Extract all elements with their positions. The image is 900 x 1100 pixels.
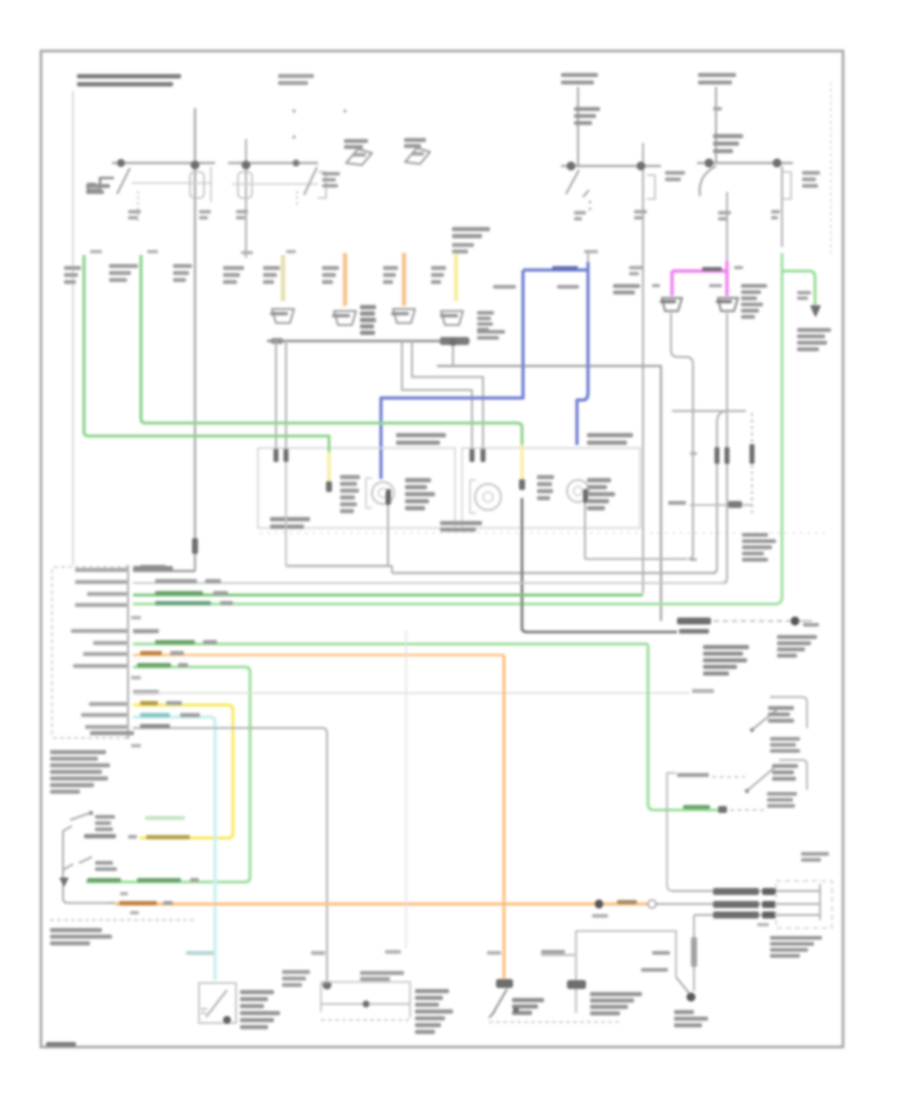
label below switch1 xyxy=(770,737,800,741)
wire: orange bottom feed xyxy=(107,902,116,904)
label block right of pink xyxy=(741,284,767,288)
pin blob right a xyxy=(470,448,475,462)
label in DRL box xyxy=(590,992,642,996)
wire: battery saver link xyxy=(690,504,752,506)
wire: trio top line xyxy=(672,890,820,892)
row label 6 xyxy=(71,629,127,633)
wire: green bottom row text xyxy=(87,878,121,882)
wire: U connector top rail xyxy=(672,410,746,412)
pin blob U a xyxy=(715,447,720,464)
wire label block g4 xyxy=(223,266,244,270)
wire: blue right leg xyxy=(577,262,588,445)
fuse element vertical xyxy=(693,915,695,937)
row label 2 xyxy=(75,580,127,584)
row label 8 xyxy=(83,652,127,656)
wire: high beam rail xyxy=(585,558,687,560)
wire: row9 green branch xyxy=(86,667,250,882)
wire: blue left leg xyxy=(381,270,523,479)
junction blob branch B right xyxy=(773,159,782,168)
wire: row12 yellow branch xyxy=(133,705,233,838)
flasher pin blob xyxy=(223,1016,231,1024)
label right of relay B xyxy=(322,172,340,176)
splice dot S410 xyxy=(791,617,800,626)
wire: U connector outer leg xyxy=(722,406,727,583)
wire: orange long vertical xyxy=(502,655,505,980)
DRL left edge bar xyxy=(567,980,586,989)
label A/C right of branch A xyxy=(665,171,685,175)
row1 text xyxy=(133,566,153,570)
wire: yellow stub right box xyxy=(520,445,523,481)
wire: red link into box xyxy=(541,954,575,956)
label DK GRN on pink xyxy=(702,267,722,271)
connector cup yellow xyxy=(441,311,463,325)
fuse B symbol and label xyxy=(713,134,743,138)
arrow blob end of green stub xyxy=(811,306,820,316)
lamp box right xyxy=(462,448,640,528)
row label 7 xyxy=(93,641,127,645)
label A tick xyxy=(120,892,128,895)
junction blob relay A right (on main vertical) xyxy=(191,161,200,170)
label above M1 a xyxy=(311,951,325,955)
sensor row dashes xyxy=(712,776,745,778)
tick C on cream xyxy=(286,250,296,253)
pin blob U b xyxy=(725,447,730,464)
pin blob yellow right xyxy=(519,479,525,490)
wire: trio bottom line xyxy=(694,914,820,916)
connector cup pink left xyxy=(662,298,682,311)
wire: yellow stub xyxy=(454,254,458,301)
wire: row14 gray branch xyxy=(133,728,327,980)
row7 end dashes xyxy=(730,809,767,811)
label: hot at all times (right) xyxy=(698,73,736,77)
lamp circle right xyxy=(567,480,589,502)
bracket right of branch B xyxy=(782,172,791,199)
wire: pink jumper xyxy=(672,261,727,296)
label ip fuse block xyxy=(770,936,822,940)
label above green arrow xyxy=(797,291,811,294)
switch A contact xyxy=(89,811,93,815)
dotted below switch A xyxy=(589,201,592,204)
pin blob left a xyxy=(274,448,279,462)
dimmer switch blade xyxy=(492,989,507,1015)
faint drop x406 xyxy=(405,630,407,948)
wire: jog drop b xyxy=(412,341,483,457)
connector bracket xyxy=(127,565,129,739)
fuse A symbol and label xyxy=(574,107,600,111)
header row 6 text xyxy=(133,629,155,633)
ground label G301 xyxy=(742,533,768,537)
label exterior lights system xyxy=(797,328,831,332)
label switch A xyxy=(95,815,115,819)
label turn signal switch xyxy=(50,928,102,932)
wire: main left feed vertical xyxy=(194,108,196,571)
dimmer terminal blob xyxy=(496,979,513,988)
row label 1 xyxy=(75,568,127,572)
tick C on green1 xyxy=(90,250,102,253)
junction blob relay B mid xyxy=(293,160,300,167)
trio bar short top xyxy=(762,888,776,895)
junction blob branch B left xyxy=(705,159,714,168)
connector tick on second vertical xyxy=(236,210,248,214)
row stub 10 xyxy=(131,676,141,679)
switch blade branch A xyxy=(566,170,579,194)
row11 end text xyxy=(692,689,714,693)
connector cup pink right xyxy=(718,298,738,311)
label S left of dimmer xyxy=(487,951,501,955)
label flasher assembly xyxy=(240,990,274,994)
label LT BLU end xyxy=(186,951,214,955)
wire: drop pair left b xyxy=(285,341,287,457)
row7 end text xyxy=(683,805,710,809)
fuse B tick xyxy=(713,107,722,111)
tick c2 under trio xyxy=(757,923,769,926)
label pale green row A xyxy=(145,816,185,820)
wire: yellow end row text xyxy=(84,834,116,838)
dashed margin line top right xyxy=(830,82,832,256)
row12 text xyxy=(140,701,158,705)
relay A switch blade xyxy=(117,168,130,194)
wire label block g8 xyxy=(431,266,446,270)
relay A connector housing xyxy=(190,172,204,198)
label blkwht xyxy=(641,968,668,972)
label s410 xyxy=(803,623,819,627)
connector arrow blob 1 xyxy=(346,149,372,165)
flasher body xyxy=(199,983,236,1023)
label switch right 1 xyxy=(768,706,794,710)
bracket right of branch A xyxy=(647,175,655,199)
dashed leg of U connector xyxy=(751,413,753,515)
DRL box xyxy=(576,931,676,1013)
junction blob relay A left xyxy=(117,159,125,167)
pin blob left b xyxy=(284,448,289,462)
connector tick on right drop xyxy=(771,210,780,214)
wire: U connector left leg xyxy=(712,411,728,573)
row13 text xyxy=(140,713,170,717)
label above ip fuse box xyxy=(801,852,829,856)
module M1 dashed bottom xyxy=(321,1019,410,1021)
label left of M1 vertical xyxy=(282,970,310,974)
row label 13 xyxy=(81,713,127,717)
lamp text col 4 xyxy=(587,478,611,482)
junction blob branch A xyxy=(567,162,576,171)
label switch right 2 xyxy=(772,764,798,768)
page number label xyxy=(46,1042,76,1047)
row11 faint wire xyxy=(133,692,690,694)
pin blob yellow left xyxy=(326,481,332,492)
dashed bottom dimmer box xyxy=(489,1021,622,1023)
label end of headlamp feed xyxy=(679,629,709,634)
row stub 5 xyxy=(131,616,141,619)
bus: branch B rail xyxy=(697,162,793,164)
wire label block g7 xyxy=(383,266,398,270)
trio bar short mid xyxy=(762,901,776,908)
module M1 inner link xyxy=(321,1003,410,1005)
row4 text xyxy=(155,601,211,605)
row2 wire gray xyxy=(133,582,727,584)
lamp circle mid xyxy=(475,484,501,510)
tick C on main xyxy=(241,251,253,254)
tick pink left xyxy=(652,284,660,287)
small ticks right box xyxy=(690,452,697,455)
tick pink right xyxy=(709,284,722,287)
dashed drop below relay B xyxy=(296,191,298,205)
wire label block g3 xyxy=(173,264,192,268)
row8 text xyxy=(140,651,162,655)
connector stack label mid xyxy=(360,305,376,309)
tick pink c2 xyxy=(734,266,743,269)
open circle on orange xyxy=(648,900,656,908)
wire: lamp drop 388 xyxy=(387,505,389,567)
switch right 1 blade xyxy=(753,708,779,729)
junction blob branch A right xyxy=(637,162,646,171)
wire: row7 green xyxy=(133,643,648,646)
splice dot on orange xyxy=(595,900,604,909)
wire: fuse B vertical xyxy=(715,87,717,163)
dashed bottom of switch assembly xyxy=(50,919,195,921)
label left front marker xyxy=(587,433,633,437)
wire: row3 green xyxy=(133,594,643,597)
relay B bracket xyxy=(318,172,326,198)
connector end label xyxy=(90,731,134,735)
trio bar mid xyxy=(713,901,759,908)
label block above yellow stub xyxy=(452,227,490,231)
row stub 15 xyxy=(131,744,141,747)
connector cup cream xyxy=(272,309,294,323)
lamp circle left xyxy=(372,482,394,504)
wire: headlamp switch feed vertical xyxy=(642,143,644,593)
label on yellow end row xyxy=(146,835,190,839)
label tan on orange xyxy=(617,900,637,904)
wire: green stub to arrow xyxy=(782,271,815,306)
label right front marker xyxy=(396,433,446,437)
connector arrow blob 2 xyxy=(405,148,430,164)
wire: gray below pink right cup xyxy=(726,313,728,406)
wire: orange stub 2 xyxy=(402,253,406,306)
row7 text xyxy=(155,640,195,644)
wire label block g1 xyxy=(64,266,81,270)
wire: left lamp inner drop xyxy=(285,462,287,566)
wire: gray below pink left cup xyxy=(671,313,693,559)
junction stub from bus xyxy=(452,341,454,366)
lamp text col 2 xyxy=(405,478,431,482)
wire: row8 orange xyxy=(133,654,504,657)
tiny dot top middle xyxy=(343,109,346,112)
label left rear lamps xyxy=(777,635,817,639)
relay B switch blade xyxy=(304,167,317,195)
junction blob relay B left xyxy=(242,161,251,170)
label above M1 b xyxy=(360,971,404,975)
label: hot at all times (mid) xyxy=(561,73,598,77)
wire: cream stub xyxy=(281,255,286,301)
tick after splice xyxy=(800,620,812,622)
bus: relay A top rail xyxy=(112,162,215,164)
trio bar short bottom xyxy=(762,912,776,919)
row3 text xyxy=(155,591,203,595)
connector tick C100 on main vertical xyxy=(199,210,211,214)
splice row bars xyxy=(677,618,711,625)
label b417 xyxy=(592,914,608,918)
label a417 xyxy=(385,950,401,954)
wire: row13 cyan branch xyxy=(133,717,215,980)
label C100 blue xyxy=(629,266,643,269)
arrow end green row xyxy=(60,878,68,886)
wire: title drop line xyxy=(72,91,74,565)
dotted continuation x294 xyxy=(292,109,295,112)
lamp text col 1 xyxy=(340,475,360,479)
relay A box right edge xyxy=(210,167,212,202)
wire: blue loop top xyxy=(523,268,588,271)
tick B below xyxy=(130,911,139,914)
bus: branch A rail xyxy=(561,165,661,167)
label: left underhood fuse block title xyxy=(77,74,181,79)
wire: row1 link xyxy=(133,570,195,572)
wire: low beam rail a xyxy=(286,565,392,567)
DRL switch dot xyxy=(687,993,696,1002)
label DK BLU on blue xyxy=(552,266,578,270)
label right of M1 xyxy=(415,989,449,993)
row label 14 xyxy=(85,725,127,729)
label under mid lamp xyxy=(440,521,482,525)
connector cup orange2 xyxy=(393,309,415,323)
ip fuse box outline xyxy=(776,881,832,928)
tick above blue right leg xyxy=(587,252,589,262)
switch blade A xyxy=(70,813,90,820)
wire: dimmer drop xyxy=(726,192,728,261)
wire: bottom orange run xyxy=(115,902,648,905)
connector tick below branch A xyxy=(574,211,586,215)
row2 text xyxy=(155,579,197,583)
wire: dark run to splice xyxy=(437,366,661,621)
DRL switch diagonal xyxy=(676,977,689,993)
wire: low beam rail step xyxy=(391,566,393,573)
header row 11 text xyxy=(133,690,157,694)
lamp box left xyxy=(258,448,455,528)
splice row dashes xyxy=(714,620,790,622)
curved switch branch B xyxy=(700,166,716,196)
dashed drop x138 xyxy=(137,191,139,222)
pin blob U c xyxy=(750,444,755,464)
bus blob b xyxy=(271,338,283,344)
row label 12 xyxy=(89,702,127,706)
module M1 box xyxy=(321,982,410,1018)
bus blob a xyxy=(440,337,469,345)
wire: pale green long xyxy=(133,253,782,604)
label left of battery saver xyxy=(668,501,686,505)
splice tick S near relay A xyxy=(128,210,141,214)
trio bar bottom xyxy=(713,912,759,919)
wire: trio mid gray xyxy=(656,903,820,905)
relay B connector housing xyxy=(238,172,252,198)
ground label G117 xyxy=(674,1010,694,1014)
wire: yellow stub left box xyxy=(327,452,330,483)
label 18 BLK row1 xyxy=(140,565,158,569)
row label 4 xyxy=(75,603,127,607)
wire: drop pair left a xyxy=(275,341,277,457)
row label 3 xyxy=(87,592,127,596)
wire: low beam rail b xyxy=(392,572,716,574)
wire: orange stub 1 xyxy=(343,253,347,306)
junction blob on bus xyxy=(449,338,457,346)
dashed rail through boxes xyxy=(260,532,830,534)
sensor row text xyxy=(677,773,709,777)
relay A coil symbol xyxy=(88,178,114,190)
trio bar top xyxy=(713,888,759,895)
relay A coil blob xyxy=(86,184,110,188)
pin blob lamp right xyxy=(583,489,588,503)
pin blob lamp left xyxy=(386,489,391,504)
switch right 2 bracket xyxy=(779,760,807,790)
wire: right drop to exterior lamps xyxy=(781,166,783,247)
lamp text col 3 xyxy=(537,475,554,479)
wire label block g6 xyxy=(322,266,339,270)
ip connector bracket xyxy=(819,884,821,920)
row14 text xyxy=(140,724,158,728)
switch right 2 blade xyxy=(748,768,774,790)
wire: jog drop a xyxy=(402,341,472,457)
label composite headlamp module xyxy=(703,645,749,649)
label switch B xyxy=(95,861,113,865)
wire: main vertical lower blob xyxy=(192,538,198,554)
wire: sensor drop to connector xyxy=(667,773,676,891)
switch bracket left xyxy=(63,826,113,903)
label under bus xyxy=(477,330,505,334)
wire: green into left box xyxy=(84,432,329,452)
wire: lamp drop 585 xyxy=(584,503,586,559)
label 18 WH right xyxy=(557,285,579,289)
switch blade B xyxy=(63,857,92,870)
label 18 ORN xyxy=(119,901,157,905)
wire: green stub 2 xyxy=(139,255,142,419)
wire: green into right box xyxy=(141,419,522,445)
dimmer switch arrow xyxy=(489,1011,495,1018)
connector tick on headlamp feed xyxy=(634,210,647,214)
label red18 xyxy=(652,951,670,955)
relay A lower rail xyxy=(132,182,212,184)
wire: second feed vertical xyxy=(245,139,247,258)
wire: green stub left xyxy=(82,255,85,432)
label below switch2 xyxy=(767,792,797,796)
label body dimming paragraph xyxy=(50,750,106,754)
wire: fuse A vertical xyxy=(577,87,579,166)
connector tick below curved switch xyxy=(718,211,731,215)
label: hot at all times (left) xyxy=(278,74,314,78)
switch arrow branch A xyxy=(583,190,589,197)
connector cup orange1 xyxy=(334,311,356,325)
dashed box of switch connector xyxy=(52,567,128,738)
bus: lamp connector rail xyxy=(267,340,470,343)
bus: relay B top rail xyxy=(228,162,318,164)
label block right of blue xyxy=(613,284,640,288)
tick C on green2 xyxy=(147,250,158,253)
label right of branch B xyxy=(802,171,820,175)
label dimmer switch xyxy=(512,998,544,1002)
wire label block g2 xyxy=(109,264,138,268)
label under left lamp xyxy=(270,517,310,521)
row7 end tick xyxy=(718,806,727,813)
relay B lower rail xyxy=(232,183,318,185)
pin blob 388 xyxy=(386,492,391,505)
wire: row7 green drop xyxy=(648,644,723,810)
row label 9 xyxy=(73,664,127,668)
lamp bracket left xyxy=(366,478,372,508)
module M1 blob xyxy=(323,981,332,990)
label 18 WH left xyxy=(493,285,516,289)
pin blob right b xyxy=(481,448,486,462)
wire label block g5 xyxy=(263,266,280,270)
switch right 1 bracket xyxy=(770,697,807,728)
label right of yellow cup xyxy=(477,311,494,315)
wire: headlamp dark vertical xyxy=(522,498,677,632)
